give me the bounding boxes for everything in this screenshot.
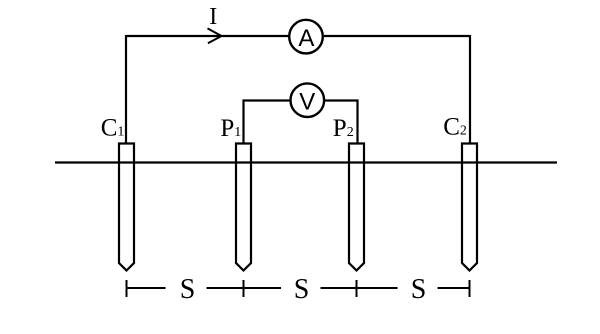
wire: P1 horizontal to voltmeter (243, 99, 291, 101)
ammeter A (289, 20, 323, 54)
svg-text:S: S (180, 274, 196, 305)
dimension tick at P1 (243, 280, 245, 297)
svg-text:I: I (209, 4, 217, 30)
dimension line span C1-P1 left part (127, 287, 166, 289)
electrode P2 (stake) (349, 144, 364, 271)
dimension line span P1-P2 left part (244, 287, 282, 289)
dimension tick at C1 (126, 280, 128, 297)
dimension tick at C2 (469, 280, 471, 297)
dimension line span P1-P2 right part (321, 287, 357, 289)
wire: top horizontal right segment (ammeter to C2 corner) (324, 35, 470, 37)
wire: voltmeter to P2 horizontal (324, 99, 359, 101)
electrode C1 (stake) (119, 144, 134, 271)
svg-text:S: S (294, 274, 310, 305)
voltmeter V (291, 83, 325, 117)
electrode C2 (stake) (462, 144, 477, 271)
electrode P1 (stake) (236, 144, 251, 271)
wire: P1 vertical up from electrode to voltmeter level (242, 100, 244, 144)
dimension line span P2-C2 right part (438, 287, 470, 289)
wire: left vertical drop from top wire to electrode C1 (125, 35, 127, 144)
wire: right vertical drop from top wire to electrode C2 (469, 35, 471, 144)
dimension tick at P2 (356, 280, 358, 297)
dimension line span C1-P1 right part (207, 287, 244, 289)
svg-text:V: V (299, 88, 315, 115)
svg-text:A: A (298, 25, 314, 52)
current arrow on top wire (208, 28, 222, 43)
wire: top horizontal left segment (C1 to ammeter) (126, 35, 289, 37)
dimension line span P2-C2 left part (357, 287, 398, 289)
wire: P2 vertical down to electrode (356, 100, 358, 144)
svg-text:S: S (411, 274, 427, 305)
ground surface line (55, 161, 557, 163)
